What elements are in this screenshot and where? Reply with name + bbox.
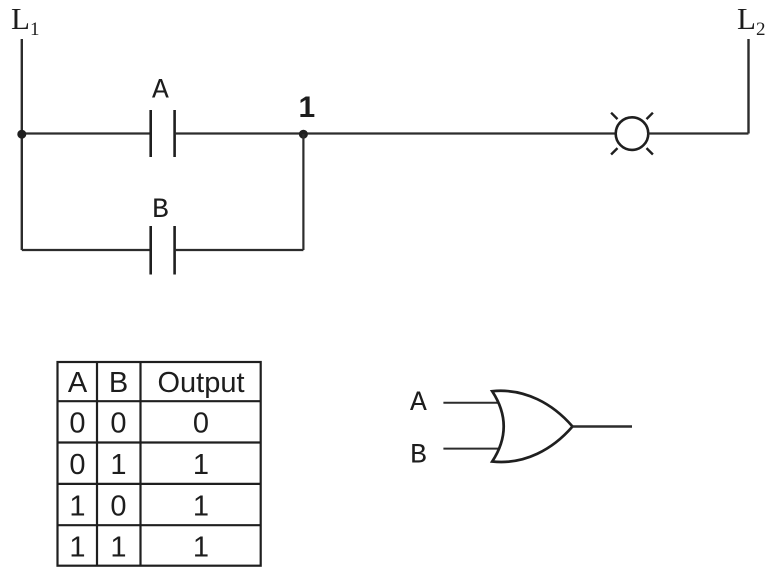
truth table text — [68, 367, 245, 564]
svg-text:L1: L1 — [11, 1, 39, 40]
svg-text:0: 0 — [69, 408, 85, 440]
junction dot at node 1 — [299, 130, 308, 139]
svg-text:B: B — [152, 195, 169, 226]
svg-text:A: A — [410, 388, 427, 419]
wire: left power rail L1 — [21, 39, 23, 250]
svg-text:B: B — [109, 367, 128, 399]
OR gate body — [492, 391, 572, 462]
wire: top rung, rail to contact A — [22, 132, 151, 134]
svg-text:1: 1 — [69, 491, 85, 523]
wire: gate output — [573, 425, 633, 427]
svg-text:A: A — [152, 76, 169, 107]
svg-text:1: 1 — [110, 449, 126, 481]
svg-text:A: A — [68, 367, 88, 399]
wire: gate input B — [443, 448, 499, 450]
svg-text:0: 0 — [193, 408, 209, 440]
wire: lamp to right rail — [648, 132, 748, 134]
svg-text:Output: Output — [158, 367, 245, 399]
svg-text:0: 0 — [110, 491, 126, 523]
svg-text:1: 1 — [299, 91, 316, 124]
svg-text:1: 1 — [193, 532, 209, 564]
wire: node 1 down to parallel branch — [302, 134, 304, 250]
wire: gate input A — [443, 402, 499, 404]
svg-text:1: 1 — [110, 532, 126, 564]
node L2 label — [737, 1, 765, 40]
junction dot at left rail — [17, 130, 26, 139]
svg-text:1: 1 — [193, 449, 209, 481]
svg-text:0: 0 — [69, 449, 85, 481]
wire: lower branch left segment — [22, 249, 151, 251]
svg-text:L2: L2 — [737, 1, 765, 40]
wire: contact A to node 1 and on to lamp — [175, 132, 616, 134]
wire: lower branch right segment — [175, 249, 304, 251]
contact A (normally-open) — [151, 110, 175, 157]
lamp / output coil — [611, 113, 653, 155]
svg-text:1: 1 — [193, 491, 209, 523]
contact B (normally-open) — [151, 226, 175, 275]
svg-text:0: 0 — [110, 408, 126, 440]
svg-text:1: 1 — [69, 532, 85, 564]
node L1 label — [11, 1, 39, 40]
svg-text:B: B — [410, 440, 427, 471]
truth table — [58, 362, 261, 566]
wire: right power rail L2 — [747, 39, 749, 134]
